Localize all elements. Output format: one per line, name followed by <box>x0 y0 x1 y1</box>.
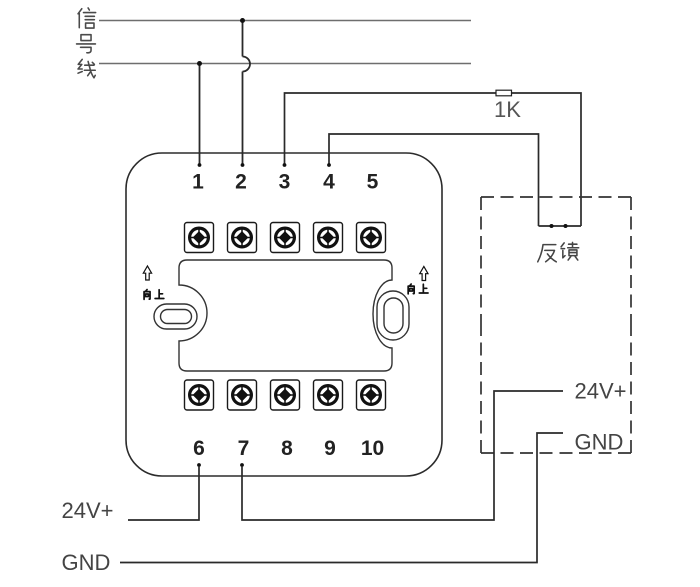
screw terminal 1 <box>185 223 214 253</box>
resistor R 1K body <box>496 90 512 96</box>
right label 向上 <box>408 284 428 294</box>
left label 向上 <box>144 290 164 300</box>
dashed feedback box <box>481 197 631 453</box>
svg-text:4: 4 <box>323 171 335 194</box>
right mounting slot outer <box>377 291 409 340</box>
svg-text:6: 6 <box>193 437 205 460</box>
screw terminal 6 <box>185 380 214 410</box>
wire GND bottom to feedback box <box>120 433 563 563</box>
feedback contact dot left <box>550 224 554 228</box>
left up arrow <box>143 266 151 280</box>
screw terminal 10 <box>357 380 386 410</box>
svg-text:24V+: 24V+ <box>62 498 114 523</box>
svg-text:5: 5 <box>367 171 379 194</box>
wire terminal 6 to 24V+ <box>128 466 199 520</box>
svg-text:24V+: 24V+ <box>575 379 627 404</box>
terminal 6 end dot <box>197 463 201 467</box>
junction dot on line B <box>197 61 202 66</box>
terminal 3 end dot <box>283 163 287 167</box>
right up arrow <box>420 267 428 281</box>
screw terminal 9 <box>314 380 343 410</box>
screw terminal 4 <box>314 223 343 253</box>
inner mounting plate with side cutouts <box>179 260 392 371</box>
signal line B (bottom) <box>99 63 471 65</box>
wire terminal 1 to signal line B <box>199 64 201 166</box>
char 号 <box>77 35 96 53</box>
label 反馈 (feedback) <box>538 242 579 261</box>
left mounting slot outer <box>154 304 197 329</box>
svg-text:10: 10 <box>361 437 384 460</box>
svg-text:1K: 1K <box>494 97 521 122</box>
feedback connector segment <box>539 225 582 227</box>
svg-text:2: 2 <box>235 171 247 194</box>
svg-text:8: 8 <box>281 437 293 460</box>
right mounting slot inner <box>384 298 403 333</box>
label 信号线 (signal wire) <box>77 8 96 78</box>
screw terminal 3 <box>271 223 300 253</box>
svg-text:3: 3 <box>279 171 291 194</box>
device body outline <box>126 153 442 476</box>
terminal 7 end dot <box>240 463 244 467</box>
svg-text:7: 7 <box>238 437 250 460</box>
terminal 1 end dot <box>198 163 202 167</box>
feedback contact dot right <box>564 224 568 228</box>
screw terminal 2 <box>228 223 257 253</box>
signal line A (top) <box>99 20 471 22</box>
wire terminal 4 to feedback <box>329 134 539 226</box>
char 反 <box>538 245 556 262</box>
wire terminal 3 to resistor and feedback <box>285 93 582 226</box>
char 线 <box>78 59 95 77</box>
screw terminal 7 <box>228 380 257 410</box>
wire terminal 7 to 24V+ in feedback box <box>242 391 563 520</box>
svg-text:1: 1 <box>192 171 204 194</box>
terminal 4 end dot <box>327 163 331 167</box>
screw terminal 8 <box>271 380 300 410</box>
svg-text:GND: GND <box>62 550 111 575</box>
screw terminal 5 <box>357 223 386 253</box>
wire terminal 2 to signal line A with hop <box>243 21 251 166</box>
left mounting slot inner <box>161 310 192 324</box>
junction dot on line A <box>240 18 245 23</box>
svg-text:9: 9 <box>324 437 336 460</box>
char 信 <box>78 8 96 28</box>
svg-text:GND: GND <box>575 430 624 455</box>
char 馈 <box>561 242 579 260</box>
terminal 2 end dot <box>241 163 245 167</box>
